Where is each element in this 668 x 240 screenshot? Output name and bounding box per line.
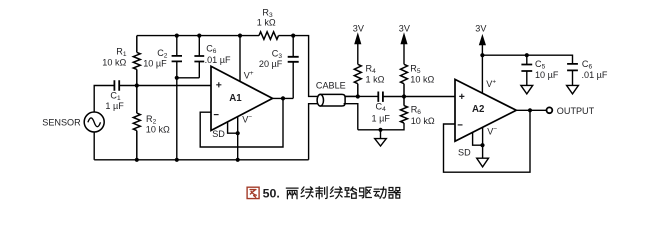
wire A2 V- pin down to ground xyxy=(482,127,484,158)
label A1 minus input xyxy=(214,114,219,116)
svg-text:3V: 3V xyxy=(475,24,487,34)
wire cable shield right down to ground row xyxy=(344,104,358,130)
svg-text:A2: A2 xyxy=(472,104,484,115)
resistor R6 xyxy=(401,97,408,124)
supply arrow 3V for R4 xyxy=(355,34,361,64)
ground symbol A2 V- xyxy=(477,158,489,167)
capacitor C2 xyxy=(172,36,182,78)
svg-text:10 kΩ: 10 kΩ xyxy=(102,58,126,68)
wire A1 output to C3 elbow xyxy=(273,97,294,99)
svg-text:10 kΩ: 10 kΩ xyxy=(410,74,434,84)
wire top rail from R3 to cable feed corner, down to cable xyxy=(279,36,320,97)
label A2 minus input xyxy=(458,124,463,126)
svg-text:3V: 3V xyxy=(399,24,411,34)
label A2 plus input xyxy=(459,94,464,99)
capacitor C6 (left .01uF) xyxy=(194,36,204,78)
capacitor C1 xyxy=(114,80,119,90)
wire A2 output xyxy=(516,109,546,111)
wire C1 to A1 noninverting input xyxy=(119,85,211,87)
capacitor C6 (right .01uF) xyxy=(567,64,578,85)
svg-text:1 kΩ: 1 kΩ xyxy=(257,18,276,28)
wire ground row to R6 bottom xyxy=(358,123,404,130)
caption title glyph xian xyxy=(301,187,313,199)
svg-text:10 kΩ: 10 kΩ xyxy=(411,116,435,126)
resistor R1 xyxy=(133,36,140,86)
resistor R3 xyxy=(259,32,279,40)
wire supply rail to C5 and C6 xyxy=(482,55,572,64)
svg-text:1 kΩ: 1 kΩ xyxy=(366,75,385,85)
op-amp A1 xyxy=(211,66,273,130)
svg-text:1 µF: 1 µF xyxy=(372,114,391,124)
ground symbol C6 xyxy=(567,85,579,94)
caption title glyph qi xyxy=(389,188,401,199)
svg-text:10 µF: 10 µF xyxy=(143,58,167,68)
wire cable node to C4 xyxy=(345,95,378,97)
wire A1 V- pin down to ground rail xyxy=(237,117,239,160)
junction node dots xyxy=(135,34,532,162)
resistor R5 xyxy=(401,64,408,96)
ground symbol cable shield/R6 row xyxy=(375,130,387,146)
supply arrow 3V for A2 xyxy=(480,36,486,56)
resistor R2 xyxy=(133,86,140,160)
op-amp A2 xyxy=(455,79,516,141)
wire A2 feedback loop xyxy=(444,110,531,172)
svg-text:.01 µF: .01 µF xyxy=(582,70,608,80)
wire A1 feedback loop to inverting input xyxy=(200,98,283,147)
wire C3 bottom to A1 output elbow xyxy=(292,62,294,99)
label A1 plus input xyxy=(216,82,221,87)
caption title glyph zhi xyxy=(316,187,327,199)
svg-text:A1: A1 xyxy=(229,93,242,104)
svg-text:20 µF: 20 µF xyxy=(259,59,283,69)
svg-text:SENSOR: SENSOR xyxy=(42,118,81,128)
caption title glyph lu xyxy=(345,187,357,198)
capacitor C5 xyxy=(521,55,532,85)
ground symbol C5 xyxy=(521,85,533,94)
svg-text:CABLE: CABLE xyxy=(316,80,346,90)
output terminal circle xyxy=(547,107,553,113)
supply arrow 3V for R5 xyxy=(401,34,407,64)
caption title glyph dong xyxy=(374,187,386,198)
wire top supply rail from R1 to R3 xyxy=(137,35,259,37)
caption title glyph xian2 xyxy=(330,187,342,199)
wire C2/C6 bottoms junction down to ground rail xyxy=(177,78,200,160)
caption title glyph qu xyxy=(359,187,371,198)
cable coax symbol xyxy=(317,94,345,106)
caption figure word (tu) in red xyxy=(247,187,259,198)
caption title glyph liang xyxy=(286,188,298,199)
wire A2 V+ stub xyxy=(481,55,483,93)
svg-text:OUTPUT: OUTPUT xyxy=(557,106,595,116)
svg-text:SD: SD xyxy=(212,129,225,139)
capacitor C3 xyxy=(288,57,299,62)
wire cable center conductor xyxy=(319,95,358,97)
wire A1 SD stub xyxy=(228,122,238,133)
capacitor C4 xyxy=(378,92,383,102)
sensor source symbol xyxy=(84,112,104,132)
svg-text:1 µF: 1 µF xyxy=(105,101,124,111)
wire ground rail up to cable shield left xyxy=(309,104,319,160)
wire bottom ground rail xyxy=(94,159,308,161)
svg-text:3V: 3V xyxy=(353,24,365,34)
svg-text:50.: 50. xyxy=(263,187,280,201)
wire A2 SD stub xyxy=(473,132,483,145)
wire C4 to R5/R6 node to A2 noninverting input xyxy=(383,96,455,98)
svg-text:.01 µF: .01 µF xyxy=(205,55,231,65)
wire A1 V+ stub from rail xyxy=(239,36,241,82)
wire sensor bottom to ground rail xyxy=(93,132,95,160)
svg-text:10 µF: 10 µF xyxy=(535,70,559,80)
wire rail junction to C3 top xyxy=(292,36,294,57)
wire sensor top to C1 xyxy=(94,86,114,113)
resistor R4 xyxy=(354,64,361,96)
svg-text:10 kΩ: 10 kΩ xyxy=(146,125,170,135)
svg-text:SD: SD xyxy=(458,147,471,157)
